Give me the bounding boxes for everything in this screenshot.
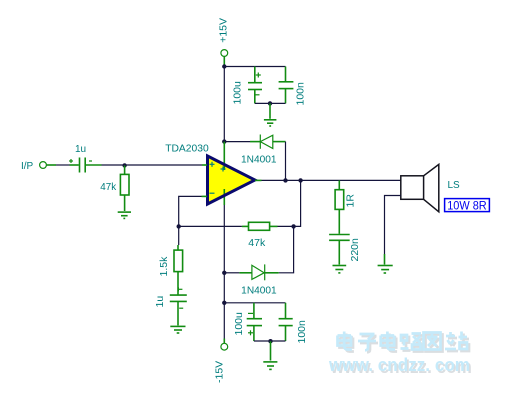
terminal +15V [221,50,228,57]
capacitor C 100u bot top pin [253,303,255,318]
resistor R 47k feedback pin right [270,225,278,227]
op-amp U1 marks [210,162,226,193]
ground top caps [264,120,277,126]
resistor R 47k input pin top [124,165,126,174]
capacitor C 1u bottom pin [177,301,179,325]
svg-text:TDA2030: TDA2030 [165,143,209,155]
wire output down jog [294,180,301,226]
ground bottom caps [263,362,277,370]
svg-text:I/P: I/P [21,161,34,172]
svg-text:1.5k: 1.5k [158,256,170,277]
op-amp U1 pin V+ [223,142,225,170]
wire C1 to opamp + input [102,164,203,166]
op-amp U1 TDA2030 body [208,156,256,204]
wire to ground top [269,103,271,118]
svg-text:www. cndzz. com: www. cndzz. com [328,354,470,375]
junction diode D2 row [222,271,226,275]
ground input [118,212,131,218]
capacitor C 100u bot bottom pin [253,326,255,341]
wire +15V rail down [223,67,225,142]
resistor R 1R pin top [338,180,340,189]
resistor R 1.5k pin top [177,245,179,250]
wire opamp V- down rail [223,205,225,273]
capacitor C 1u pin left [70,164,79,166]
watermark blue line 1 [338,332,468,351]
resistor R 47k input [120,174,129,195]
svg-text:100u: 100u [233,312,245,336]
op-amp U1 pin -IN stub [202,195,208,197]
junction bottom caps [268,339,272,343]
capacitor C 100u bottom pin [254,90,256,104]
resistor R 1.5k [174,250,183,272]
junction -15V rail [222,301,226,305]
svg-text:100n: 100n [296,320,308,344]
wire input to C1 [56,164,70,166]
capacitor C 1u bottom [170,287,187,308]
diode D2 1N4001 [252,264,265,280]
svg-text:1R: 1R [345,194,357,208]
wire bottom caps join [254,340,286,342]
svg-text:100u: 100u [232,81,244,105]
svg-text:47k: 47k [248,238,266,249]
svg-text:10W 8R: 10W 8R [447,200,487,212]
wire feedback node to R 47k fb [179,225,242,227]
svg-text:1u: 1u [154,296,166,308]
wire input stub [47,164,57,166]
junction caps bottom [268,101,272,105]
wire caps bottom [255,102,286,104]
resistor R 1.5k pin bottom [177,272,179,295]
wire rail to D1 [224,141,250,143]
capacitor C 100n bottom pin [285,89,287,104]
wire speaker ground stub [384,254,386,265]
junction diode D1 row [222,139,226,143]
diode D1 pin right [273,141,286,143]
speaker LS body [401,164,439,211]
junction feedback node [177,224,181,228]
wire rail D2 to -15V junction [223,273,225,303]
wire 47k fb to output drop [278,225,294,227]
wire D1 down to output [285,142,287,181]
svg-text:-15V: -15V [214,361,226,383]
capacitor C 100u top [248,73,262,95]
wire rail to D2 [224,272,239,274]
capacitor C 100n top [279,82,294,89]
capacitor C 1u input [69,158,92,173]
resistor R 47k feedback [249,222,270,230]
resistor R 1R [335,190,344,210]
terminal I/P [40,162,47,169]
junction +15V rail [222,64,226,68]
ground speaker [378,266,393,274]
terminal -15V stub [223,339,225,344]
svg-text:1N4001: 1N4001 [241,154,277,165]
capacitor C 100n bot bottom pin [285,326,287,341]
wire -IN to feedback node [179,196,202,226]
wire -15V rail to caps [224,302,285,304]
svg-text:+15V: +15V [218,18,230,43]
capacitor C 100n bottom supply [279,319,293,326]
junction fb right node [291,224,295,228]
wire output line [262,179,401,181]
svg-text:220n: 220n [349,238,361,262]
diode D1 1N4001 pin left [250,141,260,143]
capacitor C 100n top pin [285,67,287,82]
wire feedback node down to R 1.5k [178,226,180,245]
resistor R 47k pin bottom [124,195,126,211]
wire fb node down to D2 [279,226,294,272]
capacitor C 100n bot top pin [285,303,287,318]
wire -15V junction to terminal [223,303,225,339]
svg-text:LS: LS [448,180,461,191]
op-amp U1 pin OUT stub [255,179,262,181]
diode D2 1N4001 pin left [239,272,252,274]
wire to ground bottom caps [270,341,272,360]
svg-text:1N4001: 1N4001 [241,285,277,296]
resistor R 47k feedback pin left [242,225,249,227]
op-amp U1 pin V- [223,189,225,205]
diode D2 pin right [265,272,279,274]
svg-text:1u: 1u [75,144,86,155]
watermark line 2 [328,354,472,377]
watermark shadow line 1 [340,334,470,353]
resistor R 1R pin bottom [338,209,340,233]
ground zobel [333,266,347,273]
terminal -15V [221,343,228,350]
junction output feedback [298,178,302,182]
junction output diode [283,178,287,182]
label box 10W 8R [445,199,490,213]
svg-text:47k: 47k [100,182,117,193]
diode D1 1N4001 [260,135,273,149]
capacitor C 220n [329,235,350,241]
junction input node [122,163,126,167]
op-amp U1 border [208,156,256,204]
op-amp U1 pin +IN stub [202,164,207,166]
wire +15V rail to caps [224,66,285,68]
capacitor C 100u top pin [254,67,256,83]
capacitor C 1u pin right [85,164,101,166]
wire speaker return [385,196,401,255]
ground 1u [170,326,185,333]
capacitor C 220n pin bottom [338,240,340,264]
svg-text:100n: 100n [295,82,307,106]
capacitor C 100u bottom supply [247,313,262,335]
wire +15V stub [223,57,225,65]
